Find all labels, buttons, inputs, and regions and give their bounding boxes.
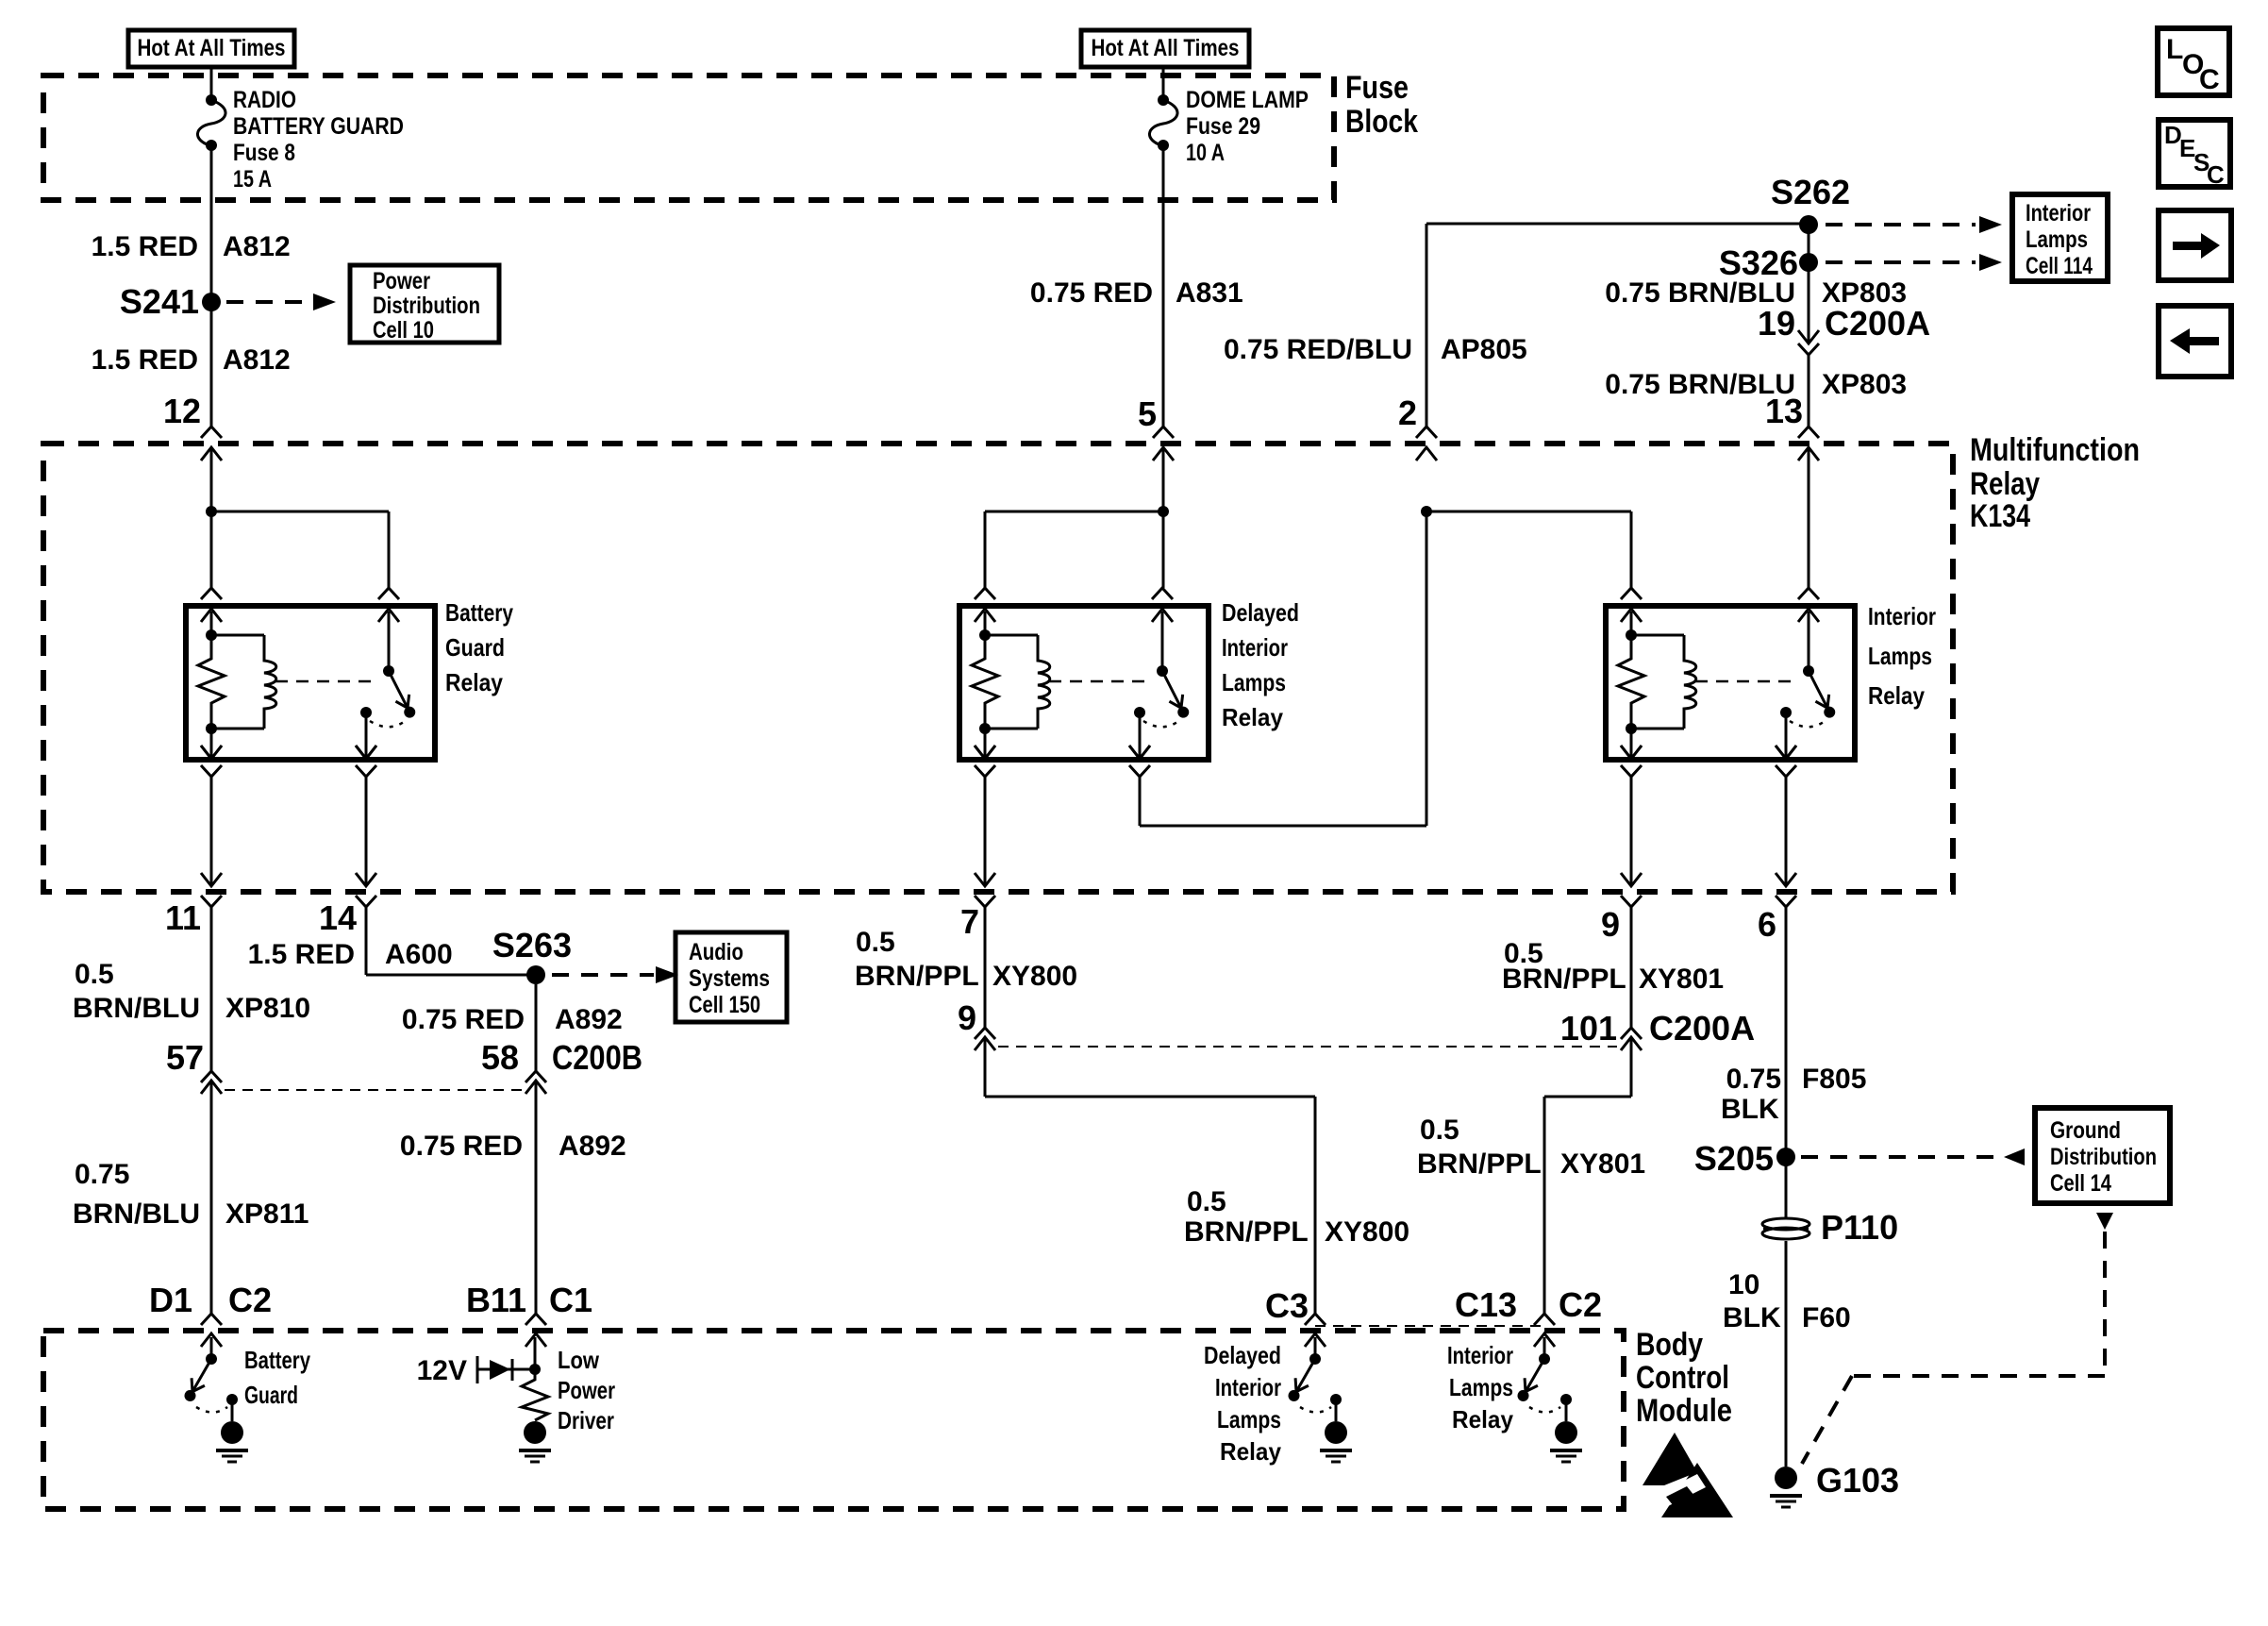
connector symbols battery guard relay coil output — [201, 746, 222, 759]
ESD sensitivity symbol — [1643, 1433, 1697, 1485]
dashed reference arrow S326 to Interior Lamps cell — [1826, 260, 1976, 264]
svg-text:9: 9 — [958, 998, 976, 1037]
svg-text:0.75 RED: 0.75 RED — [402, 1004, 525, 1035]
svg-text:Hot At All Times: Hot At All Times — [1092, 35, 1240, 61]
svg-text:12V: 12V — [417, 1355, 467, 1386]
svg-text:5: 5 — [1138, 394, 1157, 433]
svg-text:Interior: Interior — [1868, 602, 1936, 630]
battery guard relay resistor — [198, 635, 225, 729]
svg-text:C2: C2 — [228, 1281, 272, 1319]
label Hot At All Times (right) — [1081, 30, 1249, 67]
svg-text:0.75: 0.75 — [1726, 1064, 1781, 1095]
svg-text:BRN/PPL: BRN/PPL — [855, 961, 979, 992]
svg-text:P110: P110 — [1821, 1208, 1898, 1247]
svg-text:F60: F60 — [1802, 1302, 1851, 1333]
fuse RADIO BATTERY GUARD Fuse 8 15 A — [206, 94, 217, 106]
svg-text:7: 7 — [960, 902, 979, 941]
svg-text:A812: A812 — [223, 231, 291, 262]
svg-text:Lamps: Lamps — [1222, 668, 1286, 696]
svg-text:0.5: 0.5 — [75, 959, 114, 990]
svg-text:Fuse 8: Fuse 8 — [233, 140, 295, 166]
connector symbols pin 11 at K134 border — [201, 873, 222, 886]
wire XY801 (0.5 BRN/PPL) pin 9 to C200A pin 101 — [1630, 907, 1633, 1028]
wire pin 5 junction down to delayed relay switch input — [1162, 511, 1165, 588]
svg-text:Power: Power — [558, 1376, 615, 1404]
resistor (low power driver) — [522, 1369, 548, 1420]
delayed relay coil-to-switch dashed link — [1049, 680, 1153, 683]
svg-text:Power: Power — [373, 268, 430, 294]
svg-text:Lamps: Lamps — [2026, 226, 2088, 253]
connector C200B line — [225, 1089, 523, 1091]
LOC reference box — [2158, 28, 2229, 95]
wire F805 (0.75 BLK) pin 6 to S205 — [1785, 907, 1788, 1157]
battery guard relay coil (inductor) — [211, 634, 264, 637]
svg-text:DOME LAMP: DOME LAMP — [1186, 87, 1309, 113]
wire XY800 (0.5 BRN/PPL) pin 7 to C200A pin 9 — [984, 907, 987, 1028]
BCM delayed interior lamps relay driver switch — [1314, 1337, 1317, 1359]
box Audio Systems Cell 150 — [675, 932, 787, 1022]
battery guard relay coil output lead — [210, 729, 213, 759]
wire pin 12 junction down to battery guard relay coil — [210, 511, 213, 588]
wire A831 (0.75 RED) fuse 29 to K134 pin 5 — [1162, 145, 1165, 427]
svg-text:Multifunction: Multifunction — [1970, 432, 2140, 468]
wire S262 horizontal run — [1426, 223, 1809, 226]
svg-text:Guard: Guard — [244, 1381, 298, 1409]
svg-text:A812: A812 — [223, 344, 291, 376]
svg-text:Cell 114: Cell 114 — [2026, 253, 2093, 279]
wire interior relay coil output to pin 9 — [1630, 777, 1633, 886]
svg-text:C200A: C200A — [1649, 1009, 1755, 1048]
wire interior relay switch output to pin 6 — [1785, 777, 1788, 886]
Body Control Module outline (dashed) — [43, 1331, 1624, 1509]
dashed reference arrow S263 to Audio Systems cell — [552, 973, 654, 977]
wire XY801 (0.5 BRN/PPL) C200A to BCM pin C2 — [1630, 1037, 1633, 1097]
svg-text:AP805: AP805 — [1441, 334, 1527, 365]
svg-text:BRN/BLU: BRN/BLU — [73, 1199, 200, 1230]
svg-text:1.5 RED: 1.5 RED — [92, 231, 198, 262]
svg-text:G103: G103 — [1816, 1461, 1899, 1500]
wire branch to battery guard relay switch input — [211, 511, 389, 513]
svg-text:Delayed: Delayed — [1222, 598, 1299, 627]
svg-text:C: C — [2207, 160, 2225, 189]
wire XP803 (0.75 BRN/BLU) S262 to connector C200A pin 19 — [1808, 225, 1810, 344]
connector symbols delayed relay switch input — [1152, 588, 1173, 599]
delayed relay coil (inductor) — [985, 634, 1038, 637]
svg-text:58: 58 — [481, 1038, 519, 1077]
svg-text:K134: K134 — [1970, 498, 2030, 534]
svg-text:Distribution: Distribution — [2050, 1144, 2157, 1170]
dashed ground reference path from Ground Distribution to G103 — [2096, 1213, 2113, 1230]
svg-text:Relay: Relay — [1222, 703, 1283, 731]
svg-text:Driver: Driver — [558, 1406, 614, 1434]
svg-text:Battery: Battery — [445, 598, 513, 627]
svg-text:Lamps: Lamps — [1868, 642, 1932, 670]
battery guard relay coil-to-switch dashed link — [275, 680, 379, 683]
svg-text:Fuse: Fuse — [1345, 70, 1409, 106]
svg-text:XP803: XP803 — [1822, 369, 1907, 400]
svg-text:Lamps: Lamps — [1217, 1405, 1281, 1433]
interior relay coil-to-switch dashed link — [1695, 680, 1799, 683]
interior relay resistor — [1618, 635, 1644, 729]
connector symbols interior relay coil output — [1621, 746, 1642, 759]
DESC reference box — [2159, 120, 2230, 187]
label Hot At All Times (left) — [128, 30, 294, 67]
battery guard relay coil bottom junction — [206, 723, 217, 734]
box Interior Lamps Cell 114 — [2012, 194, 2108, 281]
svg-text:Distribution: Distribution — [373, 293, 480, 319]
svg-text:101: 101 — [1560, 1009, 1617, 1048]
svg-text:Relay: Relay — [1970, 466, 2040, 502]
svg-text:Audio: Audio — [689, 939, 743, 965]
svg-text:Relay: Relay — [1452, 1405, 1513, 1433]
node: pin 2 wire junction to interior lamps relay coil — [1421, 506, 1432, 517]
wire A892 (0.75 RED) S263 to C200B pin 58 — [535, 984, 538, 1071]
wire XP803 (0.75 BRN/BLU) C200A to K134 pin 13 — [1808, 355, 1810, 427]
connector symbols battery guard relay coil input — [201, 588, 222, 599]
connector symbols battery guard relay switch input — [378, 588, 399, 599]
svg-text:15 A: 15 A — [233, 166, 272, 193]
connector symbols pin C3 at BCM border — [1305, 1314, 1326, 1325]
wire battery guard relay switch output to pin 14 — [365, 777, 368, 886]
svg-text:RADIO: RADIO — [233, 87, 296, 113]
svg-text:L: L — [2166, 34, 2183, 65]
interior relay coil output lead — [1630, 729, 1633, 759]
connector symbols pin 12 at K134 border — [201, 427, 222, 438]
node: pin 5 wire junction to delayed interior lamps relay — [1162, 447, 1165, 511]
svg-text:S263: S263 — [492, 926, 572, 964]
svg-text:Interior: Interior — [1222, 633, 1288, 662]
connector symbols interior relay switch output — [1776, 746, 1796, 759]
svg-text:0.5: 0.5 — [856, 927, 895, 958]
svg-text:Module: Module — [1636, 1393, 1732, 1429]
fuse block outline (dashed) — [43, 75, 1334, 200]
svg-text:11: 11 — [165, 898, 201, 937]
svg-text:Relay: Relay — [1868, 681, 1925, 710]
svg-text:0.75 RED/BLU: 0.75 RED/BLU — [1224, 334, 1412, 365]
svg-text:XY801: XY801 — [1560, 1148, 1645, 1180]
relay U1 Battery Guard Relay box — [186, 606, 435, 760]
svg-text:A892: A892 — [555, 1004, 623, 1035]
BCM battery guard switch — [210, 1337, 213, 1359]
svg-text:C2: C2 — [1559, 1285, 1602, 1324]
svg-text:C1: C1 — [549, 1281, 592, 1319]
in-line connector P110 — [1762, 1218, 1809, 1239]
connector symbols pin 7 at K134 border — [975, 873, 995, 886]
relay U3 Interior Lamps Relay box — [1606, 606, 1855, 760]
interior relay coil input lead — [1630, 612, 1633, 635]
svg-text:BLK: BLK — [1721, 1094, 1779, 1125]
svg-text:B11: B11 — [466, 1281, 526, 1319]
svg-text:12: 12 — [163, 392, 201, 430]
svg-text:14: 14 — [319, 898, 357, 937]
connector symbols interior relay coil input — [1621, 588, 1642, 599]
svg-text:Control: Control — [1636, 1360, 1729, 1396]
dashed reference arrow S262 to Interior Lamps cell — [1826, 223, 1976, 226]
connector symbols interior relay switch input — [1798, 588, 1819, 599]
svg-text:57: 57 — [166, 1038, 204, 1077]
connector symbols delayed relay coil output — [975, 746, 995, 759]
wire F60 (10 BLK) P110 to G103 — [1785, 1241, 1788, 1467]
connector symbols pin 13 at K134 border — [1798, 427, 1819, 438]
svg-text:Low: Low — [558, 1346, 600, 1374]
svg-text:BRN/PPL: BRN/PPL — [1502, 964, 1626, 995]
svg-text:Ground: Ground — [2050, 1117, 2121, 1144]
svg-text:F805: F805 — [1802, 1064, 1866, 1095]
svg-text:Systems: Systems — [689, 965, 770, 992]
ground (delayed relay driver) — [1325, 1421, 1347, 1444]
forward arrow box — [2159, 210, 2231, 280]
wire A812 (1.5 RED) fuse 8 to K134 pin 12 — [210, 145, 213, 427]
wire battery guard relay coil output to pin 11 — [210, 777, 213, 886]
svg-text:XP811: XP811 — [225, 1199, 309, 1230]
svg-text:C3: C3 — [1265, 1286, 1309, 1325]
svg-text:Body: Body — [1636, 1327, 1703, 1363]
wire AP805 (0.75 RED/BLU): S262 branch down to pin 2 — [1426, 224, 1428, 427]
svg-text:C13: C13 — [1455, 1285, 1517, 1324]
connector symbols delayed relay coil input — [975, 588, 995, 599]
BCM low power driver — [534, 1337, 537, 1369]
connector symbols pin 5 at K134 border — [1153, 427, 1174, 438]
wire XY800 (0.5 BRN/PPL) C200A to BCM pin C3 — [984, 1037, 987, 1097]
interior relay switch — [1808, 612, 1810, 671]
svg-text:0.75 RED: 0.75 RED — [1030, 277, 1153, 309]
connector symbols pin 6 at K134 border — [1776, 873, 1796, 886]
svg-text:XY800: XY800 — [992, 961, 1077, 992]
wire pin 13 to interior lamps relay switch input — [1808, 447, 1810, 588]
backward arrow box — [2159, 306, 2231, 377]
svg-text:9: 9 — [1601, 905, 1620, 944]
svg-text:2: 2 — [1398, 394, 1417, 432]
ground (battery guard switch) — [221, 1421, 243, 1444]
svg-text:1.5 RED: 1.5 RED — [248, 939, 355, 970]
dashed reference arrow S205 to Ground Distribution — [1801, 1155, 1994, 1159]
svg-text:BATTERY GUARD: BATTERY GUARD — [233, 113, 404, 140]
wire A892 (0.75 RED) C200B to BCM pin B11 — [535, 1081, 538, 1314]
connector symbols pin 14 at K134 border — [356, 873, 376, 886]
ground G103 — [1775, 1467, 1797, 1489]
connector symbols delayed relay switch output — [1129, 746, 1150, 759]
wire delayed relay coil output to pin 7 — [984, 777, 987, 886]
svg-text:S205: S205 — [1694, 1139, 1774, 1178]
wire from Hot At All Times to fuse F29 — [1162, 67, 1165, 100]
relay U2 Delayed Interior Lamps Relay box — [959, 606, 1209, 760]
node: pin 12 wire junction to battery guard relay — [210, 447, 213, 511]
connector symbols pin C13 at BCM border — [1534, 1314, 1555, 1325]
svg-text:13: 13 — [1765, 392, 1803, 430]
dashed reference arrow S241 to Power Distribution — [226, 300, 311, 304]
svg-text:Relay: Relay — [1220, 1437, 1281, 1466]
svg-text:A600: A600 — [385, 939, 453, 970]
Multifunction Relay K134 outline (dashed) — [43, 444, 1953, 892]
wire A600 (1.5 RED) pin 14 to S263 — [365, 907, 368, 975]
svg-text:0.5: 0.5 — [1187, 1186, 1226, 1217]
connector symbols pin B11 at BCM border — [525, 1314, 546, 1325]
delayed relay coil bottom junction — [979, 723, 991, 734]
svg-text:BLK: BLK — [1723, 1302, 1781, 1333]
wire branch to interior lamps relay coil input — [1426, 511, 1631, 513]
delayed relay coil output lead — [984, 729, 987, 759]
connector C200A line — [998, 1046, 1617, 1048]
interior relay coil bottom junction — [1626, 723, 1637, 734]
svg-text:10: 10 — [1728, 1269, 1759, 1300]
svg-text:Cell 10: Cell 10 — [373, 317, 434, 344]
svg-text:1.5 RED: 1.5 RED — [92, 344, 198, 376]
wire XP810 (0.5 BRN/BLU) pin 11 to C200B pin 57 — [210, 907, 213, 1071]
wire from Hot At All Times to fuse F8 — [210, 67, 213, 100]
svg-text:C200B: C200B — [552, 1038, 642, 1077]
svg-text:Block: Block — [1345, 104, 1418, 140]
interior relay switch output lead — [1785, 712, 1788, 759]
diode D1 (low power driver) — [490, 1360, 510, 1380]
svg-text:10 A: 10 A — [1186, 140, 1225, 166]
fuse DOME LAMP Fuse 29 10 A — [1158, 94, 1169, 106]
svg-text:A892: A892 — [559, 1131, 626, 1162]
ground (interior lamps relay driver) — [1555, 1421, 1577, 1444]
box Power Distribution Cell 10 — [350, 265, 499, 343]
svg-text:Battery: Battery — [244, 1346, 310, 1374]
interior relay coil (inductor) — [1631, 634, 1684, 637]
wire XP811 (0.75 BRN/BLU) C200B to BCM pin D1 — [210, 1081, 213, 1314]
svg-text:BRN/BLU: BRN/BLU — [73, 993, 200, 1024]
svg-text:Lamps: Lamps — [1449, 1373, 1513, 1401]
svg-text:6: 6 — [1758, 905, 1776, 944]
svg-text:Cell 14: Cell 14 — [2050, 1170, 2111, 1197]
battery guard relay coil input lead — [210, 612, 213, 635]
svg-text:S262: S262 — [1771, 173, 1850, 211]
battery guard relay switch — [388, 612, 391, 671]
svg-text:XP810: XP810 — [225, 993, 310, 1024]
svg-text:C200A: C200A — [1825, 304, 1930, 343]
BCM interior lamps relay driver switch — [1543, 1337, 1546, 1359]
svg-text:0.5: 0.5 — [1420, 1115, 1459, 1146]
ground (low power driver) — [524, 1421, 546, 1444]
svg-text:Interior: Interior — [1215, 1373, 1281, 1401]
box Ground Distribution Cell 14 — [2035, 1108, 2170, 1203]
connector symbols pin 9 at K134 border — [1621, 873, 1642, 886]
delayed relay switch output lead — [1139, 712, 1142, 759]
svg-text:BRN/PPL: BRN/PPL — [1184, 1216, 1309, 1248]
svg-text:XY801: XY801 — [1639, 964, 1724, 995]
svg-text:0.75 RED: 0.75 RED — [400, 1131, 523, 1162]
svg-text:19: 19 — [1758, 304, 1795, 343]
svg-text:S326: S326 — [1719, 243, 1798, 282]
svg-text:Fuse 29: Fuse 29 — [1186, 113, 1260, 140]
battery guard relay switch output lead — [365, 712, 368, 759]
BCM connector dashed line C3-C13 — [1315, 1325, 1544, 1327]
svg-text:Relay: Relay — [445, 668, 503, 696]
svg-text:Hot At All Times: Hot At All Times — [138, 35, 286, 61]
delayed relay switch — [1161, 612, 1164, 671]
svg-text:Delayed: Delayed — [1204, 1341, 1281, 1369]
svg-text:Guard: Guard — [445, 633, 505, 662]
svg-text:D1: D1 — [149, 1281, 192, 1319]
svg-text:Interior: Interior — [1447, 1341, 1513, 1369]
svg-text:BRN/PPL: BRN/PPL — [1417, 1148, 1542, 1180]
svg-text:Cell 150: Cell 150 — [689, 992, 760, 1018]
connector symbols pin D1 at BCM border — [201, 1314, 222, 1325]
svg-text:XY800: XY800 — [1325, 1216, 1409, 1248]
svg-text:0.75: 0.75 — [75, 1159, 129, 1190]
connector symbols battery guard relay switch output — [356, 746, 376, 759]
wire S205 to P110 — [1785, 1157, 1788, 1218]
svg-text:C: C — [2199, 64, 2220, 95]
wire delayed relay switch output to AP805 riser — [1139, 777, 1142, 826]
svg-text:A831: A831 — [1176, 277, 1243, 309]
delayed relay resistor — [972, 635, 998, 729]
delayed relay coil input lead — [984, 612, 987, 635]
connector symbols pin 2 at K134 border — [1416, 427, 1437, 438]
svg-text:Interior: Interior — [2026, 200, 2091, 226]
wire branch to delayed relay coil input — [985, 511, 1163, 513]
svg-text:S241: S241 — [120, 282, 199, 321]
